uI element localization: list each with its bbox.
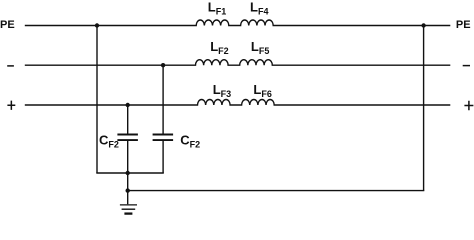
svg-text:PE: PE xyxy=(0,19,15,31)
svg-text:LF6: LF6 xyxy=(253,82,271,99)
svg-text:LF5: LF5 xyxy=(251,39,269,56)
svg-text:LF3: LF3 xyxy=(213,82,231,99)
svg-text:PE: PE xyxy=(456,19,471,31)
svg-text:CF2: CF2 xyxy=(99,133,119,150)
svg-text:LF1: LF1 xyxy=(208,0,226,17)
svg-text:LF2: LF2 xyxy=(210,39,228,56)
svg-text:CF2: CF2 xyxy=(180,133,200,150)
svg-text:LF4: LF4 xyxy=(250,0,268,17)
